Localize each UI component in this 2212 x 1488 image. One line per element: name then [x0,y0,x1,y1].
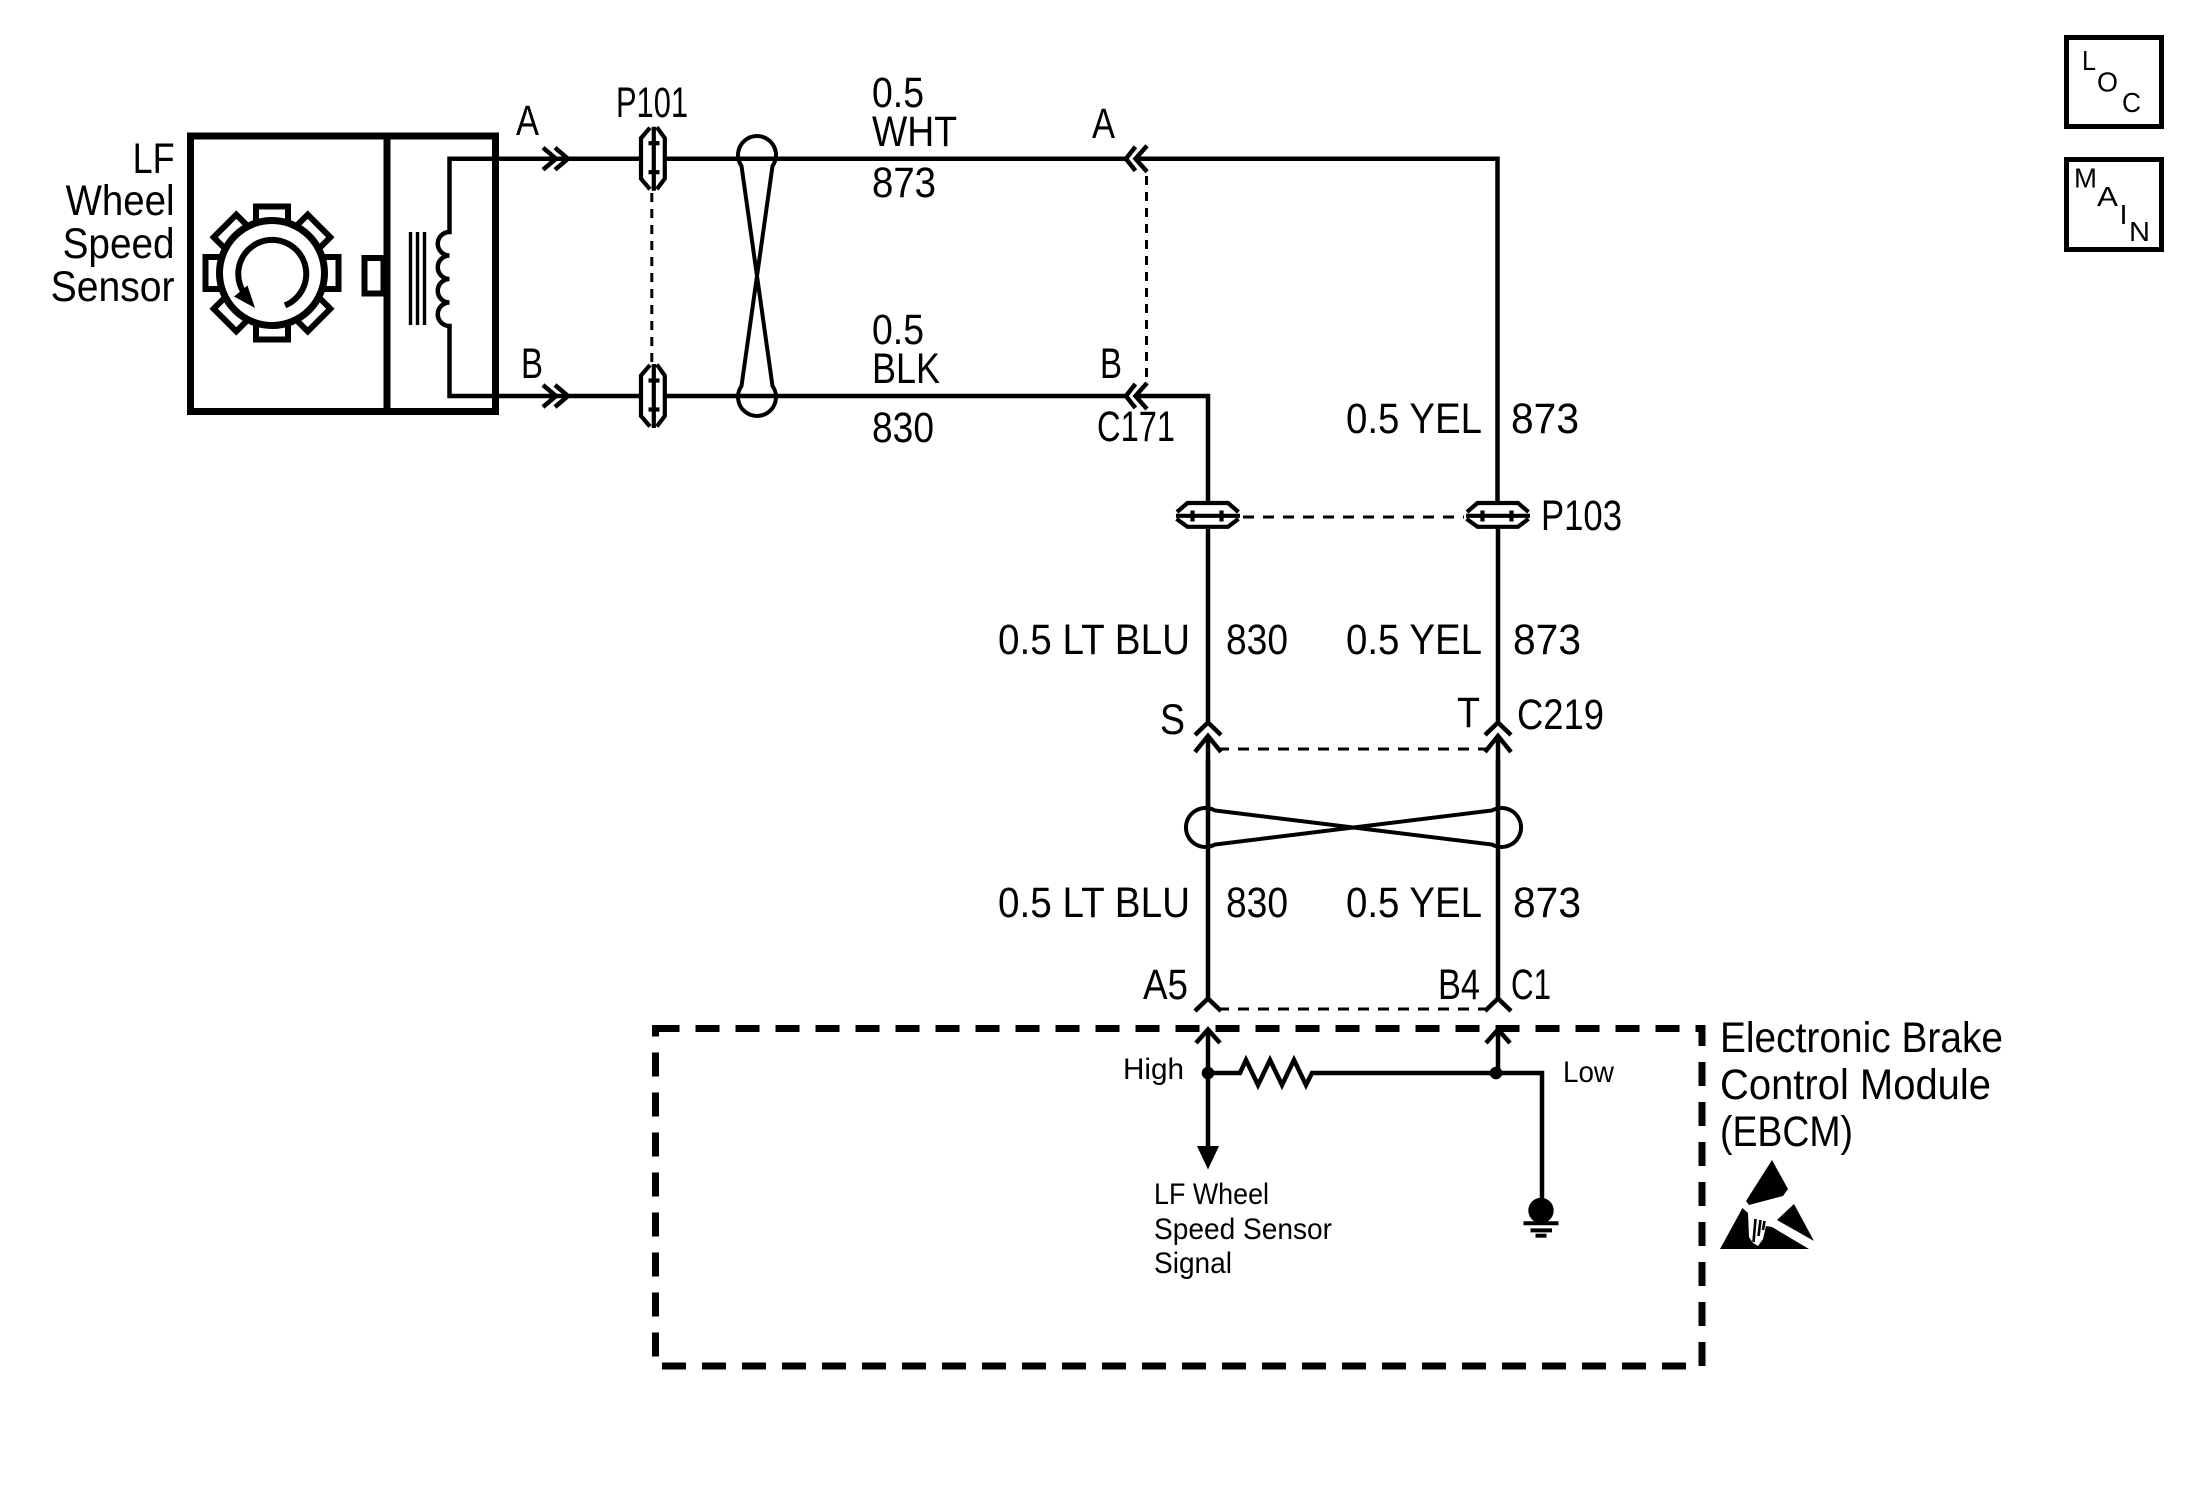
svg-text:BLK: BLK [872,345,940,393]
svg-text:Low: Low [1563,1056,1614,1089]
connector P103 (left, wire 830) [1176,503,1240,527]
svg-text:A: A [516,97,539,145]
wire A (sensor to C171) [499,156,1126,161]
svg-text:0.5 LT BLU: 0.5 LT BLU [998,616,1190,664]
junction dot Low [1490,1067,1503,1080]
EBCM pin chevron B4 [1485,999,1511,1012]
sensor core (pole piece) [411,232,425,325]
svg-text:LF: LF [133,135,175,183]
twisted pair symbol (A/B) [738,136,776,416]
C219 terminal chevron T [1485,723,1511,736]
EBCM dashed box [656,1029,1703,1367]
C171 terminal chevrons wire B [1126,383,1147,409]
svg-text:O: O [2097,67,2118,98]
wire 830 P103 to C219 [1206,527,1211,722]
C171 terminal chevrons wire A [1126,146,1147,172]
svg-text:873: 873 [1513,879,1581,927]
svg-text:Electronic Brake: Electronic Brake [1720,1014,2003,1062]
svg-text:830: 830 [1226,879,1288,927]
wire 873 P103 to C219 [1496,527,1501,722]
svg-text:Sensor: Sensor [51,263,175,311]
svg-text:T: T [1457,689,1480,737]
svg-text:C219: C219 [1517,691,1604,739]
svg-text:873: 873 [1511,395,1579,443]
C171 dashed connector line [1145,176,1148,379]
tone wheel (gear) [206,207,339,340]
svg-text:WHT: WHT [872,108,957,156]
resistor (EBCM internal) [1208,1060,1496,1085]
EBCM internal arrow (Low) [1486,1030,1510,1074]
EBCM internal arrow (High) [1196,1030,1220,1074]
svg-text:C1: C1 [1511,961,1551,1009]
ESD sensitive device symbol [1746,1160,1788,1205]
svg-text:0.5 LT BLU: 0.5 LT BLU [998,879,1190,927]
P101 connector dashed link [650,193,653,362]
svg-text:Control Module: Control Module [1720,1061,1991,1109]
svg-text:N: N [2129,216,2150,247]
svg-text:L: L [2082,45,2096,76]
svg-text:Speed: Speed [63,220,175,268]
svg-text:(EBCM): (EBCM) [1720,1108,1853,1156]
sensor coil [438,159,499,396]
C219 arrow T [1485,736,1511,810]
C219 arrow S [1195,736,1221,810]
wire 830: C171 to P103 [1136,396,1208,502]
EBCM pin chevron A5 [1195,999,1221,1012]
svg-text:830: 830 [872,404,934,452]
connector P101 (wire B) [641,364,665,428]
wire 873 C219 to EBCM pin B4 [1496,760,1501,998]
svg-text:0.5 YEL: 0.5 YEL [1346,616,1482,664]
signal arrow (LF Wheel Speed Sensor Signal) [1206,1073,1211,1147]
P103 dashed connector line [1243,516,1464,519]
svg-text:B: B [1100,340,1122,388]
LOC reference box [2067,38,2162,127]
svg-text:Signal: Signal [1154,1247,1232,1280]
wire B out-chevrons [543,385,568,407]
wire 873 YEL: C171 to P103 [1136,159,1498,502]
LF Wheel Speed Sensor box [191,136,496,412]
connector P101 (wire A) [641,127,665,191]
svg-text:P103: P103 [1541,492,1622,540]
svg-text:S: S [1160,696,1185,744]
svg-text:B: B [521,340,543,388]
svg-text:A5: A5 [1143,961,1188,1009]
svg-text:B4: B4 [1438,961,1480,1009]
svg-text:C: C [2122,87,2141,118]
C219 terminal chevron S [1195,723,1221,736]
svg-text:LF Wheel: LF Wheel [1154,1178,1269,1211]
MAIN reference box [2067,160,2162,250]
twisted pair symbol (lower) [1186,808,1521,847]
svg-text:873: 873 [1513,616,1581,664]
sensor housing notch [365,258,384,294]
wire A out-chevrons [543,148,568,170]
ground symbol [1528,1198,1553,1223]
svg-text:0.5 YEL: 0.5 YEL [1346,879,1482,927]
svg-text:C171: C171 [1097,403,1175,451]
svg-text:873: 873 [872,159,936,207]
svg-text:830: 830 [1226,616,1288,664]
svg-text:0.5 YEL: 0.5 YEL [1346,395,1482,443]
wire junction to ground [1496,1073,1542,1198]
EBCM pin dashed line [1218,1008,1488,1011]
wire B (sensor to C171) [499,394,1126,399]
rotation arrow [238,240,306,306]
C219 dashed connector line [1218,748,1488,751]
svg-text:I: I [2120,199,2128,230]
svg-text:A: A [2097,181,2118,212]
svg-text:A: A [1092,100,1115,148]
connector P103 (right, wire 873) [1466,503,1530,527]
junction dot High [1202,1067,1215,1080]
wire 830 C219 to EBCM pin A5 [1206,760,1211,998]
svg-text:Wheel: Wheel [66,177,175,225]
svg-text:P101: P101 [616,79,688,127]
svg-text:Speed Sensor: Speed Sensor [1154,1213,1332,1246]
svg-text:M: M [2074,163,2097,194]
svg-text:High: High [1123,1053,1184,1086]
